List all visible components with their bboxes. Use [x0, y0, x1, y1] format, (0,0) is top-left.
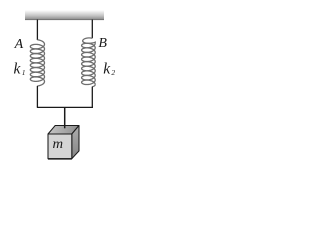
spring B (k2) [82, 38, 96, 87]
ceiling [25, 10, 104, 20]
mass bottom shadow edge [48, 158, 72, 160]
mass block m [48, 126, 79, 159]
wire from spring A to crossbar [36, 86, 38, 107]
svg-text:B: B [98, 36, 107, 51]
svg-text:m: m [53, 137, 64, 152]
spring A (k1) [30, 40, 44, 86]
svg-text:k2: k2 [103, 60, 115, 77]
wire from crossbar to mass [64, 107, 66, 128]
svg-text:k1: k1 [14, 60, 26, 77]
crossbar wire [37, 106, 93, 108]
wire from ceiling to spring A [36, 20, 38, 41]
wire from ceiling to spring B [91, 20, 93, 39]
svg-text:A: A [14, 37, 24, 52]
wire from spring B to crossbar [91, 87, 93, 108]
